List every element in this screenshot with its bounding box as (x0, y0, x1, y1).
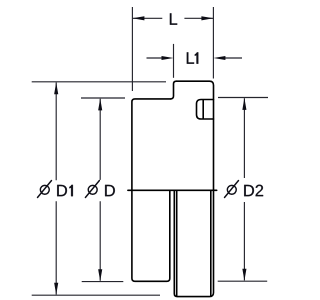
dimension line: OD (two segments around text) (99, 99, 101, 281)
label OD2: digit 2 (256, 185, 264, 197)
label OD2: diameter circle (227, 185, 236, 194)
body: pipe inner-left wall line (176, 191, 178, 296)
dimension line: L1 (outside segments) (147, 57, 243, 59)
label OD: letter D (105, 185, 115, 196)
extension line: L left (131, 7, 133, 91)
label L1: letter L (187, 52, 194, 63)
extension line: OD bottom (82, 281, 124, 283)
label OD1: diameter slash (38, 181, 52, 198)
dimension line: OD1 (two segments around text) (55, 83, 57, 295)
label L (top dimension) (170, 13, 177, 24)
label OD: diameter circle (88, 185, 97, 194)
arrowhead: L1 left (outside, pointing right) (162, 56, 174, 60)
label OD1: letter D (57, 185, 67, 196)
arrowhead: L1 right (outside, pointing left) (213, 56, 225, 60)
label OD1: diameter circle (40, 185, 49, 194)
label OD2: letter D (244, 185, 254, 196)
extension line: L / L1 right (212, 7, 214, 79)
extension line: OD2 bottom (218, 280, 268, 282)
arrowhead: L left (132, 16, 144, 20)
label OD2: diameter slash (225, 181, 239, 198)
label L1: digit 1 (195, 52, 199, 63)
label OD1: digit 1 (69, 185, 73, 196)
label OD: diameter slash (85, 181, 99, 198)
body: pipe inner-right wall line (210, 191, 212, 296)
body: left section outline (top edge, left face, bottom edge, cone line) (132, 99, 171, 281)
body: step shoulder at top (171, 81, 177, 99)
arrowhead: OD top (98, 98, 102, 110)
arrowhead: OD bottom (98, 269, 102, 281)
extension line: OD2 top (218, 97, 268, 99)
body: raised section top edge, right face, pipe bottom edge, pipe outer-left wall (174, 81, 213, 296)
extension line: OD1 bottom (32, 294, 160, 296)
dimension line: OD2 (two segments around text) (243, 98, 245, 280)
arrowhead: L right (201, 16, 213, 20)
arrowhead: OD1 top (54, 82, 58, 94)
body: bead outline at top right (197, 100, 214, 120)
arrowhead: OD2 top (242, 98, 246, 110)
dimension line: L (two segments around text) (132, 17, 213, 19)
extension line: L1 left (173, 44, 175, 78)
arrowhead: OD1 bottom (54, 283, 58, 295)
extension line: OD top (81, 97, 125, 99)
body: bead inner line (202, 100, 204, 119)
arrowhead: OD2 bottom (242, 269, 246, 281)
extension line: OD1 top (32, 81, 166, 83)
body: shoulder line at mid (128, 189, 217, 191)
